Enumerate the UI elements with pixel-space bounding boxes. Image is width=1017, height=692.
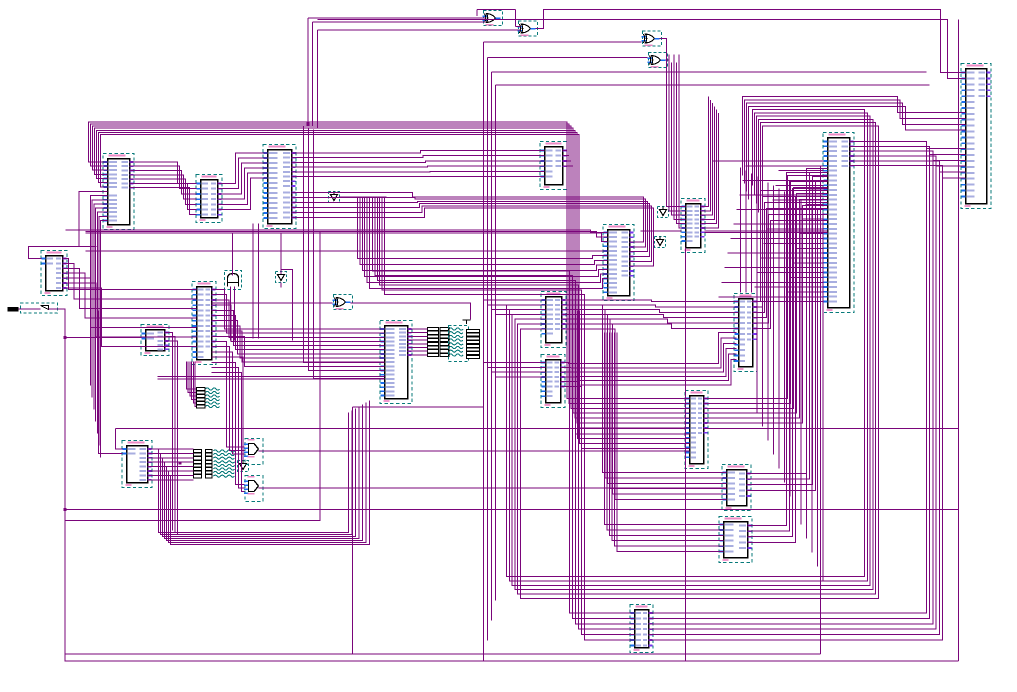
block U15 (541, 355, 565, 408)
wire V685 (685, 248, 687, 662)
bus W32 U16-up (704, 176, 828, 424)
wire T5 link (242, 457, 244, 461)
wire port-U11 (65, 337, 142, 339)
wire T2 entry (280, 234, 282, 274)
inverter T1 (329, 192, 340, 203)
gate G6 (244, 439, 263, 465)
wire U17 feed1 (116, 428, 123, 449)
wire long vertical V495 (495, 85, 497, 600)
bus W23 U13-U19 (562, 305, 727, 500)
bus W25 U19-up (747, 169, 828, 491)
wire top loop y19 to U6 (312, 19, 314, 21)
bus W19 U17-down-right-up (148, 401, 370, 545)
gate G1 (483, 11, 503, 26)
wire V820 (820, 166, 822, 655)
block U1 (103, 154, 134, 230)
wire port rail (49, 309, 959, 661)
bus W14 U11-down (165, 333, 178, 535)
bus W22 band-U21 (373, 197, 635, 640)
bus W32b U15-U14 (561, 333, 737, 387)
wire U17 feed2 (99, 311, 123, 454)
wire G1 input risers (308, 17, 485, 19)
wire y85 to loopB (496, 84, 930, 86)
bus W6 U3-U4 (292, 151, 545, 177)
wire y229 long (66, 230, 608, 233)
wire T1 link (340, 196, 387, 198)
bus W37 down-U16b (576, 311, 690, 449)
net cluster WC2 (194, 449, 235, 477)
bus W28 U7-up (701, 97, 719, 229)
wire long vertical V483 (483, 42, 485, 661)
bus W13 U10-G67 (212, 342, 245, 492)
bus W2 left-verticals (91, 196, 108, 458)
block U17 (122, 441, 152, 488)
wire U3 bottom legs (252, 224, 254, 339)
wire T2 link (280, 283, 282, 288)
bus W27 bandY96-U6 (743, 97, 966, 200)
block U2 (196, 175, 222, 223)
block U14 (734, 294, 757, 372)
wire rail y520 (65, 232, 320, 521)
inverter T3 (658, 207, 669, 218)
block U13 (541, 292, 566, 348)
bus W33 U14-U5 (753, 191, 828, 329)
bus W12 U10-U12 (212, 290, 385, 367)
block U21 (630, 605, 653, 653)
bus W21 loopB (649, 142, 943, 641)
wire G4 out (666, 60, 670, 63)
gate G5 (333, 295, 353, 310)
wire rail y657 (958, 20, 960, 662)
wire rail y650 (352, 407, 354, 654)
gate G3 (642, 31, 662, 46)
bus W11 U9-U10 (63, 259, 197, 347)
block U16 (685, 391, 708, 469)
block U7 (681, 199, 705, 253)
gate G4 (648, 53, 668, 68)
inverter T5 (238, 461, 249, 472)
block U4 (540, 142, 567, 190)
block U20 (719, 517, 752, 563)
block U10 (192, 282, 216, 365)
bus W4 U1-U2 (130, 162, 197, 215)
net cluster WC3 (428, 327, 464, 356)
wire long vertical V491 (491, 72, 493, 621)
bus W3 G34-U7 (667, 55, 686, 229)
bus W26 U20-up (748, 173, 828, 543)
gate G7 (244, 476, 263, 502)
wire G1-G2 wrap (477, 8, 516, 10)
wire A1 legs (232, 234, 234, 276)
wire G6 out (259, 450, 690, 452)
gate G2 (518, 21, 538, 36)
block U5 (823, 133, 854, 313)
block U11 (141, 325, 169, 356)
wire U9 left (29, 191, 108, 258)
bus W1 U1-top-U16 (89, 122, 690, 428)
wire y71 to loopB (492, 71, 927, 73)
wire G5 in/out (212, 302, 333, 304)
wire G7 out (259, 487, 727, 489)
net cluster WC1 (197, 387, 220, 408)
bus W30 V-U13 (484, 300, 546, 314)
block U9 (41, 251, 67, 296)
bus W9 left-U8left (358, 197, 608, 289)
bus W31 V-U15 (484, 363, 546, 377)
wire long vertical V487 (487, 58, 489, 641)
bus W16 V303-U12 (304, 126, 385, 379)
wire U8 pin feed y250 (86, 250, 608, 252)
wire G3 input (484, 41, 642, 43)
wire rail y509 (65, 509, 959, 511)
bus W34 mesh-h (713, 161, 824, 302)
net cluster WC3 terminals (449, 320, 480, 362)
bus W5 U2-U3 (218, 153, 268, 210)
block U6 (961, 64, 991, 209)
junction dots (64, 123, 310, 512)
wire G4 input (488, 57, 648, 59)
block U8 (603, 225, 634, 301)
block U19 (722, 465, 751, 511)
bus W29 U13-U14 (562, 300, 739, 329)
bus W24 down-U20 (605, 333, 724, 552)
bus WC1 feeds (187, 362, 197, 390)
inverter T2 (276, 272, 287, 283)
bus W20 loopA (507, 110, 879, 599)
bus W8 band-U8right (292, 193, 654, 267)
bus W15 y376-U12 (158, 377, 385, 380)
bus W18 U17-WC2 (148, 449, 194, 480)
block U3 (263, 145, 296, 229)
block U12 (380, 321, 412, 404)
bus W35 mesh-v (741, 168, 824, 581)
bus W10 U4right-tie (563, 151, 574, 167)
inverter T4 (655, 237, 666, 248)
wire rail y428 (116, 427, 686, 429)
input port PIN1 (8, 303, 58, 313)
wire G2 out to U6 (536, 9, 966, 72)
bus W17 U12-WC3 (408, 329, 428, 355)
gate A1 (225, 271, 242, 290)
wire G3 out (660, 39, 667, 63)
bus W21b loopB-U6 (927, 149, 966, 179)
